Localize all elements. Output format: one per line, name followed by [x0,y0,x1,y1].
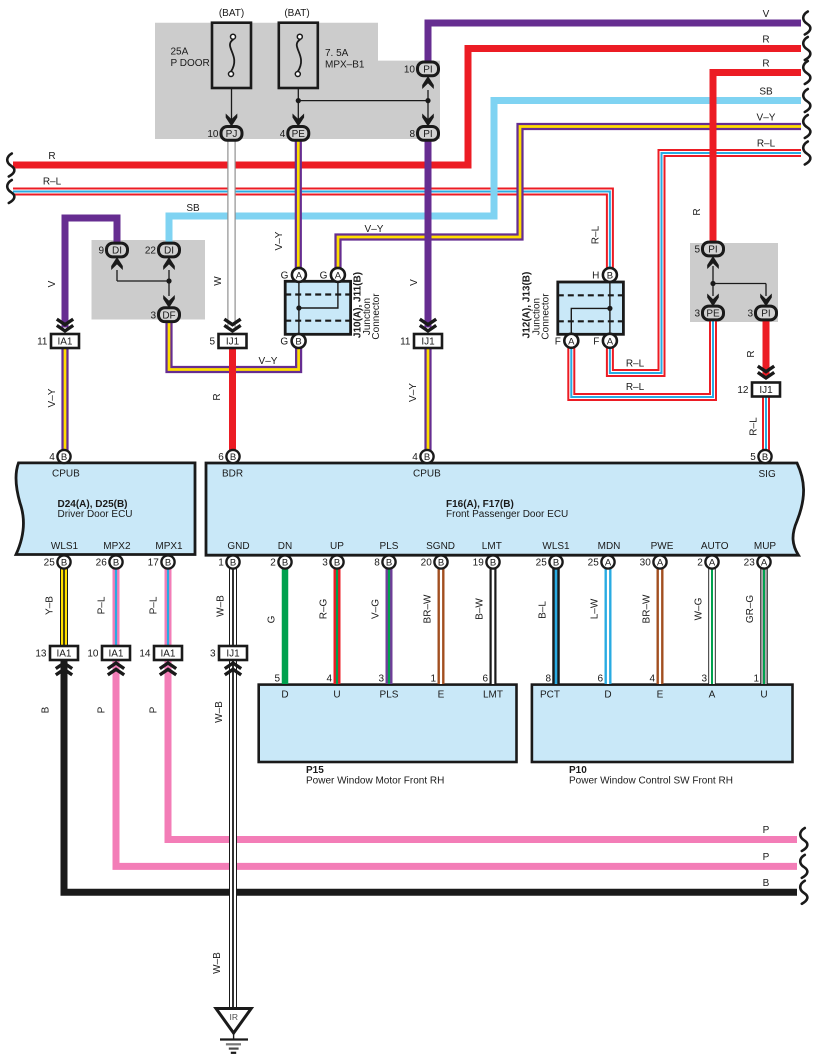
svg-text:A: A [709,690,716,701]
connector 12 IJ1 [752,383,780,397]
svg-text:CPUB: CPUB [413,469,441,480]
svg-text:5: 5 [750,452,756,463]
svg-text:AUTO: AUTO [701,541,729,552]
connector 3 IJ1 [219,646,247,660]
Front Passenger Door ECU box F16(A) F17(B) [206,463,804,555]
svg-text:3: 3 [210,649,216,660]
svg-text:8: 8 [409,129,415,140]
svg-text:B: B [553,557,559,568]
svg-text:P–L: P–L [149,596,160,614]
arrow into 12 IJ1 [758,372,774,378]
P10 Power Window Control SW Front RH box [532,685,793,762]
wire V-Y to CPUB passenger [424,348,431,452]
wire R-L from 3 PE to F A left [571,320,713,397]
svg-text:PE: PE [292,129,306,140]
svg-text:V–Y: V–Y [408,383,419,402]
wire R feed upper [13,49,801,166]
svg-text:GND: GND [227,541,249,552]
svg-text:SGND: SGND [426,541,455,552]
svg-text:3: 3 [694,309,700,320]
svg-text:Power Window Control SW Front: Power Window Control SW Front RH [569,776,733,787]
wire V-Y to junction A right [338,127,801,270]
pin 1 B GND [226,555,239,568]
connector 3 DF [159,308,180,322]
svg-text:R: R [48,151,55,162]
svg-text:IA1: IA1 [108,649,123,660]
svg-text:B–L: B–L [538,601,549,619]
svg-text:CPUB: CPUB [52,469,80,480]
P15 Power Window Motor Front RH box [259,685,517,762]
svg-text:3: 3 [747,309,753,320]
svg-text:9: 9 [98,246,104,257]
svg-text:B: B [230,452,236,463]
svg-text:B: B [334,557,340,568]
wire P MPX1 run [168,660,797,840]
svg-text:D: D [604,690,611,701]
connector 5 IJ1 [219,334,247,348]
svg-text:IA1: IA1 [57,337,72,348]
connector 22 DI [159,243,180,257]
Driver Door ECU box D24(A) D25(B) [16,463,195,555]
svg-text:4: 4 [280,129,286,140]
svg-text:2: 2 [697,558,703,569]
junction pin G A left [292,268,306,282]
arrow into 3 IJ1 [225,663,241,669]
ground IR [216,1009,251,1034]
svg-text:PWE: PWE [651,541,674,552]
pin 20 B SGND [434,555,447,568]
svg-text:23: 23 [744,558,756,569]
svg-text:BR–W: BR–W [642,594,653,623]
svg-text:3: 3 [322,558,328,569]
svg-text:A: A [607,336,614,347]
junction connector J12(A) J13(B) box [558,282,624,334]
connector 9 DI [107,243,128,257]
wire V-Y from DF to G B [169,321,299,370]
svg-text:SIG: SIG [759,469,776,480]
svg-text:R–G: R–G [319,598,330,619]
svg-text:W–B: W–B [214,701,225,723]
svg-text:P: P [763,825,770,836]
svg-text:DN: DN [278,541,292,552]
svg-text:B: B [113,557,119,568]
svg-text:V: V [47,280,58,287]
svg-text:Front Passenger Door ECU: Front Passenger Door ECU [446,509,568,520]
svg-text:25: 25 [44,558,56,569]
svg-text:Y–B: Y–B [45,596,56,615]
DI box internal wiring [117,280,169,282]
svg-text:PCT: PCT [540,690,560,701]
svg-text:8: 8 [374,558,380,569]
svg-text:10: 10 [207,129,219,140]
svg-text:V–Y: V–Y [365,224,384,235]
svg-text:DF: DF [162,310,175,321]
svg-text:26: 26 [96,558,108,569]
pin 23 A MUP [757,555,770,568]
svg-text:IJ1: IJ1 [226,337,240,348]
svg-text:LMT: LMT [483,690,503,701]
connector 4 PE [288,127,309,141]
wire V-Y from fuse PE [295,140,302,269]
junction pin H B [603,268,617,282]
junction pin F A left [564,334,578,348]
svg-text:P: P [149,706,160,713]
wire W-B GND upper [229,568,237,646]
svg-text:IJ1: IJ1 [421,337,435,348]
pin 2 B DN [278,555,291,568]
wire BR-W PWE [657,568,664,684]
svg-text:BR–W: BR–W [423,594,434,623]
svg-text:BDR: BDR [222,469,243,480]
svg-text:1: 1 [218,558,224,569]
svg-text:(BAT): (BAT) [284,8,309,19]
junction pin G A right [331,268,345,282]
arrow into 11 IJ1 [420,325,436,331]
svg-text:Connector: Connector [541,293,552,340]
wire GR-G MUP [760,568,768,684]
svg-text:E: E [657,690,664,701]
connector 8 PI [418,127,439,141]
wire L-W MDN [605,568,612,684]
arrow into 10 IA1 [108,663,124,669]
break R right lower [803,61,810,84]
svg-text:PI: PI [423,129,432,140]
svg-text:14: 14 [139,649,151,660]
svg-text:R–L: R–L [43,177,62,188]
svg-text:R–L: R–L [626,359,645,370]
svg-text:P10: P10 [569,765,587,776]
wire R-L from 12 IJ1 to SIG [762,397,770,453]
connector 11 IA1 [51,334,79,348]
svg-text:DI: DI [164,246,174,257]
svg-text:MPX–B1: MPX–B1 [325,60,365,71]
wire V-G PLS [386,568,393,684]
svg-text:B: B [438,557,444,568]
svg-text:6: 6 [218,452,224,463]
svg-text:W–B: W–B [216,595,227,617]
relay block panel (fuses) [155,23,440,139]
arrow into 5 IJ1 [224,325,240,331]
connector 3 PE [703,306,724,320]
svg-text:5: 5 [209,337,215,348]
svg-text:7. 5A: 7. 5A [325,48,349,59]
svg-text:4: 4 [326,674,332,685]
wire BR-W SGND [438,568,445,684]
svg-text:(BAT): (BAT) [219,8,244,19]
break P right lower [800,855,807,878]
svg-text:F: F [555,336,561,347]
svg-text:B: B [607,270,613,281]
svg-text:B: B [282,557,288,568]
svg-text:GR–G: GR–G [745,595,756,624]
svg-text:A: A [709,557,716,568]
svg-text:E: E [438,690,445,701]
pin 25 A MDN [601,555,614,568]
svg-text:G: G [320,270,328,281]
svg-text:R: R [692,208,703,215]
svg-text:LMT: LMT [482,541,502,552]
svg-text:20: 20 [421,558,433,569]
fuse output lines [231,88,233,122]
svg-text:1: 1 [430,674,436,685]
svg-text:H: H [592,270,599,281]
svg-text:A: A [761,557,768,568]
svg-text:WLS1: WLS1 [542,541,570,552]
wire W-B to ground IR [229,660,237,1009]
svg-text:17: 17 [148,558,160,569]
svg-text:Connector: Connector [371,293,382,340]
svg-text:MUP: MUP [754,541,777,552]
svg-text:D: D [281,690,288,701]
svg-text:G: G [281,270,289,281]
wire P-L MPX1 [165,568,172,646]
wire V from DI 9 to 11 IA1 [65,218,117,328]
pin 4 B CPUB passenger [420,450,433,463]
svg-text:R–L: R–L [626,382,645,393]
svg-text:V–G: V–G [371,599,382,619]
break R-L right [803,142,810,165]
break R left [7,154,14,177]
connector 13 IA1 [50,646,78,660]
svg-text:A: A [335,270,342,281]
wire R-G UP [334,568,341,684]
svg-text:2: 2 [270,558,276,569]
svg-text:W–B: W–B [212,952,223,974]
svg-text:B: B [762,452,768,463]
svg-text:8: 8 [545,674,551,685]
svg-text:22: 22 [145,246,157,257]
svg-text:B: B [61,452,67,463]
driver door connector panel (DI/DF) [92,240,206,320]
wire V-Y to CPUB driver [61,348,68,452]
svg-text:B: B [165,557,171,568]
svg-text:3: 3 [378,674,384,685]
svg-text:B: B [424,452,430,463]
svg-text:WLS1: WLS1 [51,541,79,552]
svg-text:B: B [295,337,301,348]
pin 6 B BDR [226,450,239,463]
break SB right [803,89,810,112]
wire Y-B WLS1 [60,568,68,646]
svg-text:MPX1: MPX1 [155,541,183,552]
svg-text:V–Y: V–Y [47,388,58,407]
pin 3 B UP [330,555,343,568]
wire B-L WLS1 switch [552,568,560,684]
svg-text:V: V [763,9,770,20]
arrow into 13 IA1 [56,663,72,669]
svg-text:W–G: W–G [694,597,705,620]
break R-L left [7,180,14,203]
svg-text:PI: PI [423,65,432,76]
svg-text:IR: IR [230,1012,239,1022]
svg-text:PI: PI [761,309,770,320]
svg-text:G: G [267,615,278,623]
svg-text:UP: UP [330,541,344,552]
connector 11 IJ1 [414,334,442,348]
svg-text:P15: P15 [306,765,324,776]
svg-text:SB: SB [759,87,773,98]
wire SB to DI 22 [169,101,801,246]
svg-text:A: A [568,336,575,347]
svg-text:PE: PE [706,309,720,320]
wire R from 3 PI to 12 IJ1 [763,320,770,376]
arrow into 11 IA1 [57,325,73,331]
junction pin G B [292,334,306,348]
wire R feed to 5 PI [713,73,801,245]
svg-text:B: B [386,557,392,568]
svg-text:A: A [605,557,612,568]
wire R-L to F A right [610,153,801,373]
pin 8 B PLS [382,555,395,568]
svg-text:U: U [760,690,767,701]
svg-text:25: 25 [536,558,548,569]
svg-text:G: G [280,337,288,348]
wire W-G AUTO [708,568,716,684]
connector 10 IA1 [102,646,130,660]
svg-text:IJ1: IJ1 [226,649,240,660]
svg-text:R–L: R–L [757,139,776,150]
pin 4 B CPUB driver [57,450,70,463]
arrow into 14 IA1 [160,663,176,669]
svg-text:PLS: PLS [380,690,399,701]
svg-text:P: P [97,706,108,713]
wire B-W LMT [490,568,497,684]
svg-text:R: R [762,59,769,70]
connector 5 PI [703,242,724,256]
svg-text:V: V [409,279,420,286]
connector 14 IA1 [154,646,182,660]
wire W from fuse PJ [227,140,235,328]
svg-text:L–W: L–W [590,598,601,619]
wire G DN [282,568,289,684]
svg-text:MPX2: MPX2 [103,541,131,552]
svg-text:Driver Door ECU: Driver Door ECU [58,509,133,520]
pin 26 B MPX2 [109,555,122,568]
svg-text:11: 11 [37,337,48,348]
wire V from 8 PI to 11 IJ1 [425,140,432,328]
wire V battery feed [428,23,801,63]
connector 10 PJ [221,127,242,141]
svg-text:10: 10 [87,649,99,660]
passenger connector panel (PI/PE) [690,243,778,322]
fuse 25A P DOOR symbol [212,23,251,88]
svg-text:6: 6 [482,674,488,685]
break P right upper [800,828,807,851]
svg-text:PLS: PLS [380,541,399,552]
svg-text:P DOOR: P DOOR [171,58,210,69]
svg-text:B: B [41,706,52,713]
pin 30 A PWE [653,555,666,568]
svg-text:R: R [212,393,223,400]
svg-text:P: P [763,852,770,863]
svg-text:30: 30 [640,558,652,569]
svg-text:1: 1 [753,674,759,685]
svg-text:B: B [61,557,67,568]
svg-text:3: 3 [150,310,156,321]
wire P MPX2 run [116,660,797,867]
svg-text:12: 12 [737,385,749,396]
svg-text:10: 10 [404,65,416,76]
fuse 7.5A MPX-B1 symbol [279,23,318,88]
svg-text:P–L: P–L [97,596,108,614]
svg-text:6: 6 [597,674,603,685]
pin 25 B WLS1 switch [549,555,562,568]
svg-text:V–Y: V–Y [757,113,776,124]
svg-text:4: 4 [412,452,418,463]
break V-Y right [803,115,810,138]
pin 19 B LMT [486,555,499,568]
pin 17 B MPX1 [161,555,174,568]
svg-text:4: 4 [49,452,55,463]
svg-text:F: F [593,336,599,347]
svg-text:B: B [763,878,770,889]
svg-text:13: 13 [35,649,47,660]
svg-text:PI: PI [708,245,717,256]
svg-text:5: 5 [694,245,700,256]
svg-text:3: 3 [701,674,707,685]
wire P-L MPX2 [113,568,120,646]
wire R to BDR [229,348,236,452]
svg-text:SB: SB [186,203,200,214]
svg-text:R: R [762,35,769,46]
svg-text:A: A [296,270,303,281]
svg-text:11: 11 [400,337,411,348]
svg-text:25: 25 [588,558,600,569]
svg-text:R: R [746,350,757,357]
svg-text:PJ: PJ [226,129,238,140]
svg-text:B: B [490,557,496,568]
wire B to body [64,660,797,893]
svg-text:4: 4 [649,674,655,685]
svg-text:A: A [657,557,664,568]
pin 5 B SIG [758,450,771,463]
svg-text:5: 5 [274,674,280,685]
junction connector J10(A) J11(B) box [285,281,350,334]
junction pin F A right [603,334,617,348]
pin 25 B WLS1 driver [57,555,70,568]
svg-text:R–L: R–L [591,225,602,244]
break R right upper [803,37,810,60]
break B right [800,881,807,904]
wire R-L long to H B [13,192,610,270]
svg-text:B–W: B–W [475,598,486,620]
svg-text:19: 19 [473,558,485,569]
connector 10 PI [418,62,439,76]
svg-text:DI: DI [112,246,122,257]
connector 3 PI right [756,306,777,320]
pin 2 A AUTO [705,555,718,568]
svg-text:IA1: IA1 [160,649,175,660]
svg-text:W: W [213,276,224,286]
svg-text:IJ1: IJ1 [759,385,773,396]
svg-text:V–Y: V–Y [274,231,285,250]
svg-text:25A: 25A [171,47,189,58]
break V right [803,12,810,35]
svg-text:MDN: MDN [598,541,621,552]
svg-text:IA1: IA1 [56,649,71,660]
svg-text:R–L: R–L [749,417,760,436]
svg-text:V–Y: V–Y [259,356,278,367]
svg-text:B: B [230,557,236,568]
svg-text:Power Window Motor Front RH: Power Window Motor Front RH [306,776,444,787]
svg-text:U: U [333,690,340,701]
PI box internal wiring [713,283,766,285]
